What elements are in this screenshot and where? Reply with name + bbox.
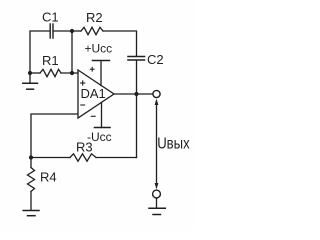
node A junction dot bbox=[70, 29, 74, 33]
wire inverting input to left bbox=[31, 114, 78, 158]
-Ucc polarity marker bbox=[91, 115, 95, 117]
wire R2 to C2 bbox=[103, 31, 137, 56]
wire C1 to node A bbox=[53, 30, 72, 32]
svg-text:Uвых: Uвых bbox=[157, 136, 190, 153]
+Ucc polarity marker bbox=[90, 67, 94, 71]
-Ucc power pin bbox=[95, 103, 111, 128]
ground (left, at R1 input node) bbox=[23, 73, 38, 89]
node at R1 left / ground junction dot bbox=[28, 71, 32, 75]
wire R4 to ground bbox=[30, 192, 32, 211]
svg-text:DA1: DA1 bbox=[81, 86, 106, 101]
wire top-left segment and left rail bbox=[30, 31, 50, 73]
non-inverting input marker + bbox=[81, 81, 85, 85]
ground (below R4) bbox=[23, 211, 39, 216]
resistor R2 bbox=[81, 27, 103, 34]
op-amp DA1 bbox=[78, 70, 114, 118]
+Ucc power pin bbox=[93, 61, 110, 86]
wire op-amp output bbox=[114, 93, 137, 95]
svg-text:R4: R4 bbox=[40, 170, 57, 185]
output terminal circle bbox=[153, 90, 160, 97]
wire C2 to output node bbox=[136, 60, 138, 94]
wire node A to R2 bbox=[72, 30, 81, 32]
svg-text:C2: C2 bbox=[147, 52, 164, 67]
output node junction dot bbox=[134, 92, 138, 96]
ground (below output terminal) bbox=[149, 208, 165, 214]
wire R3 to feedback corner bbox=[96, 157, 137, 159]
capacitor C2 bbox=[128, 57, 145, 61]
resistor R1 bbox=[40, 69, 61, 76]
wire non-inverting input bbox=[30, 72, 40, 74]
wire R1 to op-amp bbox=[61, 72, 78, 74]
svg-text:+Ucc: +Ucc bbox=[85, 42, 113, 56]
svg-text:R2: R2 bbox=[86, 10, 103, 25]
resistor R3 bbox=[70, 154, 96, 161]
svg-text:C1: C1 bbox=[42, 10, 59, 25]
node B junction dot (R3/R4) bbox=[29, 155, 33, 159]
wire node B to R4 bbox=[30, 158, 32, 168]
Uvyh arrow line (double headed) bbox=[155, 99, 159, 190]
node at non-inverting input junction dot bbox=[70, 71, 74, 75]
inverting input marker - bbox=[81, 104, 85, 106]
capacitor C1 bbox=[50, 24, 53, 38]
wire node B to R3 bbox=[31, 157, 70, 159]
svg-text:R3: R3 bbox=[76, 140, 93, 155]
wire terminal to ground bbox=[156, 198, 158, 208]
wire node A down to non-inverting node bbox=[71, 31, 73, 73]
lower terminal circle bbox=[153, 190, 161, 198]
resistor R4 bbox=[28, 168, 35, 192]
svg-text:R1: R1 bbox=[42, 53, 59, 68]
wire feedback vertical bbox=[136, 94, 138, 158]
wire output node to terminal bbox=[137, 93, 153, 95]
